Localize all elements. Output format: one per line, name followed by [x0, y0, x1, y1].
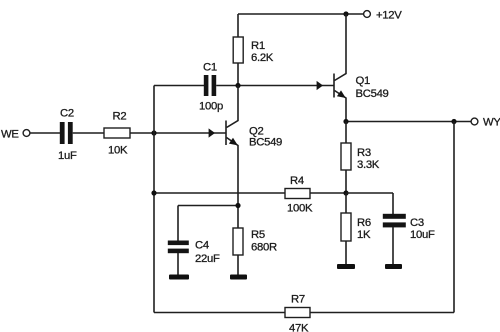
- capacitor C4: [168, 241, 189, 246]
- node left rail R4 junction: [151, 190, 156, 195]
- wire right rail: [453, 122, 455, 313]
- wire output line: [346, 121, 471, 123]
- ground R6: [337, 264, 355, 269]
- ground C4: [169, 275, 189, 280]
- wire C2 to R2: [73, 132, 104, 134]
- resistor R6: [345, 193, 347, 213]
- terminal WE: [23, 130, 30, 137]
- svg-text:10uF: 10uF: [410, 229, 435, 241]
- wire R6 bottom: [345, 241, 347, 264]
- svg-text:1uF: 1uF: [58, 150, 77, 162]
- resistor R7: [285, 308, 310, 318]
- wire R3 bottom: [345, 170, 347, 193]
- wire C4 top: [177, 206, 179, 242]
- svg-text:C4: C4: [195, 240, 209, 252]
- ground R5: [230, 275, 247, 280]
- terminal WY: [471, 118, 478, 125]
- wire C3 branch: [346, 192, 393, 194]
- node +12V junction: [343, 11, 348, 16]
- svg-text:C2: C2: [60, 108, 74, 120]
- wire R1 top: [237, 14, 239, 37]
- svg-text:R4: R4: [290, 175, 304, 187]
- node emitter R5 junction: [235, 203, 240, 208]
- transistor Q1: [333, 74, 335, 98]
- wire R4 line left: [154, 192, 285, 194]
- resistor R2: [104, 128, 130, 138]
- arrow on Q1 base wire: [317, 81, 323, 90]
- wire C1 to Q1 base: [216, 85, 333, 87]
- svg-text:R3: R3: [357, 147, 371, 159]
- wire R7 right: [310, 312, 454, 314]
- wire C4 bottom: [177, 253, 179, 275]
- node output junction: [451, 119, 456, 124]
- node R3/R6 junction: [343, 190, 348, 195]
- svg-text:100p: 100p: [199, 101, 223, 113]
- capacitor C3: [383, 214, 406, 219]
- svg-text:6.2K: 6.2K: [251, 52, 274, 64]
- wire left rail: [153, 86, 155, 313]
- svg-text:680R: 680R: [251, 242, 277, 254]
- svg-text:R6: R6: [357, 217, 371, 229]
- svg-text:22uF: 22uF: [195, 253, 220, 265]
- wire C3 top: [392, 193, 394, 214]
- wire R5 bottom: [237, 255, 239, 275]
- svg-text:BC549: BC549: [356, 88, 389, 100]
- transistor Q2: [225, 121, 227, 146]
- resistor R4: [285, 189, 310, 199]
- wire R2 to Q2 base: [130, 132, 226, 134]
- wire R3 top: [345, 122, 347, 144]
- ground C3: [385, 264, 402, 269]
- svg-text:WY: WY: [483, 117, 500, 129]
- svg-text:3.3K: 3.3K: [357, 159, 380, 171]
- arrow on Q2 base wire: [209, 128, 215, 137]
- svg-text:R2: R2: [113, 111, 127, 123]
- svg-text:Q1: Q1: [356, 75, 370, 87]
- resistor R3: [341, 143, 351, 170]
- node input junction: [151, 130, 156, 135]
- wire top rail: [238, 13, 364, 15]
- resistor R5: [233, 228, 243, 255]
- svg-text:R1: R1: [251, 40, 265, 52]
- wire C1 left: [154, 85, 204, 87]
- wire C3 bottom: [392, 227, 394, 264]
- wire C4 line: [178, 205, 238, 207]
- capacitor C1: [204, 75, 209, 96]
- svg-text:BC549: BC549: [249, 137, 282, 149]
- svg-text:1K: 1K: [357, 229, 371, 241]
- node emitter junction: [343, 119, 348, 124]
- wire R4 right: [310, 192, 346, 194]
- svg-text:C1: C1: [203, 62, 217, 74]
- capacitor C2: [60, 122, 65, 144]
- svg-text:R5: R5: [251, 229, 265, 241]
- svg-text:10K: 10K: [108, 145, 128, 157]
- node R1/C1/base junction: [235, 83, 240, 88]
- svg-text:R7: R7: [291, 294, 305, 306]
- wire R1 bottom: [237, 63, 239, 86]
- svg-text:C3: C3: [410, 217, 424, 229]
- resistor R1: [233, 37, 243, 63]
- terminal +12V: [364, 11, 371, 18]
- svg-text:47K: 47K: [289, 323, 309, 332]
- svg-text:100K: 100K: [287, 203, 313, 215]
- svg-text:+12V: +12V: [376, 10, 402, 22]
- wire R7 line left: [154, 312, 285, 314]
- wire WE to C2: [30, 132, 60, 134]
- svg-text:WE: WE: [1, 129, 19, 141]
